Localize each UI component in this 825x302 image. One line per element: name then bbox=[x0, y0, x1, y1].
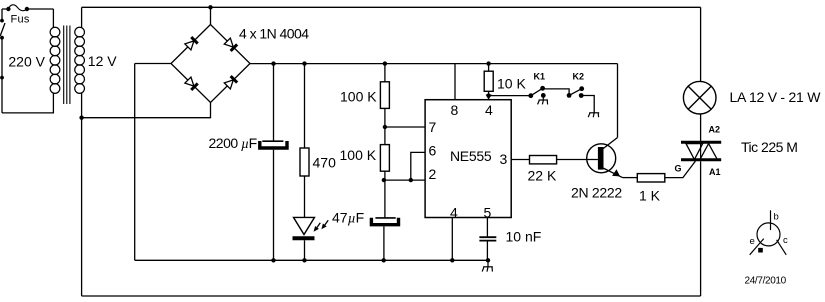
svg-text:100 K: 100 K bbox=[340, 89, 377, 105]
wire pin 5 to cap bbox=[486, 218, 488, 238]
node cap2200 top bbox=[271, 61, 275, 65]
svg-text:b: b bbox=[774, 212, 779, 223]
wire bridge minus down bbox=[134, 64, 136, 261]
svg-text:A1: A1 bbox=[709, 167, 721, 177]
wire 470 to LED bbox=[304, 176, 306, 217]
svg-text:220 V: 220 V bbox=[8, 54, 45, 70]
ground (K1 contact) bbox=[538, 95, 548, 104]
wire 2200uF column bottom bbox=[273, 150, 275, 261]
wire R1 to R2 bbox=[384, 108, 386, 144]
wire 10K top stub bbox=[488, 64, 490, 72]
svg-text:4: 4 bbox=[450, 204, 458, 220]
resistor 22K bbox=[530, 156, 557, 164]
svg-text:G: G bbox=[675, 164, 682, 174]
wire primary top lead bbox=[52, 9, 54, 28]
resistor 1K bbox=[637, 174, 665, 182]
capacitor 10nF bbox=[479, 237, 496, 240]
wire node to K1 bbox=[489, 95, 531, 97]
switch K1 bbox=[528, 86, 545, 98]
fuse Fus bbox=[8, 5, 27, 11]
diode D1 (bridge top-left) bbox=[185, 37, 198, 50]
wire bridge minus left bbox=[135, 63, 171, 65]
wire top rail corner down to lamp bbox=[700, 7, 702, 81]
wire triac to bottom rail bbox=[700, 161, 702, 296]
svg-text:2N 2222: 2N 2222 bbox=[571, 185, 622, 201]
svg-text:4: 4 bbox=[485, 102, 493, 118]
svg-text:e: e bbox=[750, 236, 755, 247]
node pin7 junction bbox=[383, 125, 387, 129]
diode D4 (bridge bottom-right) bbox=[224, 76, 237, 89]
wire 220V left vertical bottom bbox=[1, 38, 3, 113]
node gnd pin4 bbox=[450, 258, 454, 262]
LED D5 bbox=[293, 217, 315, 238]
node 220V terminal bbox=[0, 76, 4, 80]
svg-text:7: 7 bbox=[429, 119, 437, 135]
wire K2 to ground bbox=[581, 96, 594, 113]
node gnd 2200uF bbox=[271, 258, 275, 262]
node gnd 10nF bbox=[486, 258, 490, 262]
LED arrows bbox=[314, 220, 329, 232]
wire lamp to triac bbox=[700, 114, 702, 141]
wire collector to +12V bbox=[617, 64, 619, 138]
wire bridge top stub bbox=[210, 7, 212, 24]
svg-text:6: 6 bbox=[429, 143, 437, 159]
wire R2 bottom bbox=[384, 171, 386, 218]
resistor 100K R1 bbox=[380, 82, 389, 109]
node gnd LED bbox=[302, 258, 306, 262]
wire ground rail bbox=[135, 259, 488, 261]
wire +12V rail bbox=[250, 63, 618, 65]
wire pin 3 output bbox=[511, 159, 529, 161]
node R470 top bbox=[302, 61, 306, 65]
switch K2 bbox=[567, 86, 584, 98]
capacitor 47uF bbox=[370, 218, 401, 225]
transformer T1 primary coil bbox=[50, 27, 60, 93]
switch mains bbox=[0, 19, 4, 23]
svg-text:2200 µF: 2200 µF bbox=[209, 135, 257, 152]
wire K1 to K2 bbox=[543, 89, 570, 96]
node pin2 junction bbox=[382, 178, 386, 182]
svg-text:c: c bbox=[783, 235, 788, 246]
transistor Q1 2N2222 bbox=[587, 138, 623, 178]
svg-text:4 x 1N 4004: 4 x 1N 4004 bbox=[239, 26, 309, 42]
wire pin 4 arrow stub bbox=[488, 96, 490, 98]
svg-text:A2: A2 bbox=[709, 125, 721, 135]
wire 22K to base bbox=[557, 159, 598, 161]
wire 10K bottom to node bbox=[488, 91, 490, 95]
triac Tic 225 M bbox=[681, 142, 721, 160]
wire pin 7 bbox=[385, 126, 425, 128]
bridge diamond wires bbox=[171, 25, 250, 103]
node bridge AC top bbox=[208, 5, 212, 9]
wire 47uF bottom bbox=[383, 226, 385, 260]
svg-text:8: 8 bbox=[451, 102, 459, 118]
pin 4 arrowhead bbox=[486, 95, 492, 100]
transformer T1 core bbox=[64, 26, 70, 105]
wire top rail bbox=[82, 6, 701, 8]
svg-text:1 K: 1 K bbox=[639, 188, 661, 204]
svg-text:24/7/2010: 24/7/2010 bbox=[745, 276, 787, 287]
wire pin 4 bottom bbox=[451, 218, 453, 261]
wire 470 column top bbox=[304, 64, 306, 148]
svg-text:LA 12 V - 21 W: LA 12 V - 21 W bbox=[730, 89, 822, 105]
svg-text:47µF: 47µF bbox=[332, 210, 364, 227]
pinout e tab bbox=[758, 248, 763, 253]
pinout c lead bbox=[777, 240, 787, 255]
wire LED bottom bbox=[304, 240, 306, 260]
svg-text:470: 470 bbox=[313, 155, 337, 171]
wire pin 2 bbox=[384, 179, 425, 181]
node R10K top bbox=[486, 61, 490, 65]
wire 1K to gate bbox=[665, 161, 696, 178]
capacitor 2200uF bbox=[258, 141, 289, 148]
svg-text:2: 2 bbox=[429, 166, 437, 182]
resistor 470 bbox=[300, 148, 309, 176]
ground (main) bbox=[482, 260, 493, 271]
svg-text:22 K: 22 K bbox=[528, 168, 557, 184]
svg-text:100 K: 100 K bbox=[340, 147, 377, 163]
wire AC line to bridge bottom bbox=[82, 103, 211, 118]
wire emitter to 1K bbox=[623, 177, 638, 179]
svg-text:Tic 225 M: Tic 225 M bbox=[741, 139, 797, 155]
svg-text:10 nF: 10 nF bbox=[506, 229, 542, 245]
wire pin 8 bbox=[454, 64, 456, 100]
resistor 10K bbox=[484, 71, 493, 91]
wire 220V left vertical top bbox=[1, 9, 3, 21]
svg-text:NE555: NE555 bbox=[450, 148, 492, 164]
svg-text:12 V: 12 V bbox=[88, 53, 117, 69]
wire 10nF bottom bbox=[486, 241, 488, 261]
svg-text:Fus: Fus bbox=[11, 13, 30, 25]
ground (K2) bbox=[588, 113, 599, 117]
wire left outer vertical bbox=[81, 118, 83, 296]
node R100K top bbox=[383, 61, 387, 65]
lamp LA bbox=[683, 81, 716, 114]
node gnd 47uF bbox=[382, 258, 386, 262]
resistor 100K R2 bbox=[380, 145, 389, 172]
wire R100K-1 top stub bbox=[384, 64, 386, 82]
pinout e lead bbox=[750, 239, 764, 255]
svg-text:3: 3 bbox=[500, 151, 508, 167]
wire 220V bottom bbox=[2, 93, 53, 113]
diode D3 (bridge bottom-left) bbox=[185, 77, 198, 90]
diode D2 (bridge top-right) bbox=[224, 38, 237, 51]
op-amp/timer U1 NE555 box bbox=[425, 100, 511, 218]
svg-text:K2: K2 bbox=[573, 72, 585, 82]
wire bottom outer rail bbox=[82, 295, 701, 297]
pinout b lead bbox=[770, 210, 772, 230]
wire secondary top lead bbox=[81, 7, 83, 28]
transistor pinout circle bbox=[757, 223, 780, 246]
wire secondary bottom lead bbox=[81, 93, 83, 118]
wire 2200uF column top bbox=[273, 64, 275, 141]
svg-text:K1: K1 bbox=[534, 72, 546, 82]
node secondary bottom junction bbox=[79, 116, 83, 120]
node pin4/K1 bbox=[486, 93, 490, 97]
wire pin 6 bracket bbox=[411, 152, 425, 180]
wire mains top (fuse line) bbox=[2, 8, 53, 10]
svg-text:10 K: 10 K bbox=[497, 76, 526, 92]
transformer T1 secondary coil bbox=[75, 27, 85, 93]
node pin6 bracket junction bbox=[409, 178, 413, 182]
